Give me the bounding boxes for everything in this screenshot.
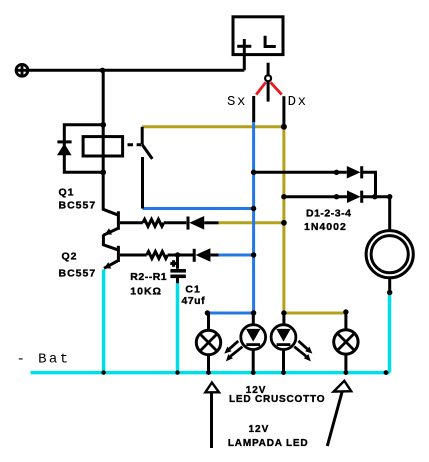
svg-text:- Bat: - Bat	[17, 352, 71, 368]
svg-text:LAMPADA LED: LAMPADA LED	[228, 438, 308, 449]
svg-text:Dx: Dx	[288, 94, 308, 110]
svg-text:47uf: 47uf	[182, 295, 206, 307]
svg-text:C1: C1	[185, 283, 200, 295]
svg-text:R2--R1: R2--R1	[130, 271, 167, 283]
svg-text:12V: 12V	[249, 424, 270, 435]
svg-text:BC557: BC557	[59, 267, 97, 279]
svg-text:Q1: Q1	[59, 186, 75, 198]
svg-text:Q2: Q2	[62, 250, 78, 262]
svg-text:Sx: Sx	[227, 94, 247, 110]
svg-text:1N4002: 1N4002	[304, 221, 347, 233]
svg-text:BC557: BC557	[59, 199, 97, 211]
svg-text:D1-2-3-4: D1-2-3-4	[306, 207, 351, 219]
svg-text:LED CRUSCOTTO: LED CRUSCOTTO	[229, 394, 325, 405]
svg-text:10KΩ: 10KΩ	[130, 285, 162, 297]
